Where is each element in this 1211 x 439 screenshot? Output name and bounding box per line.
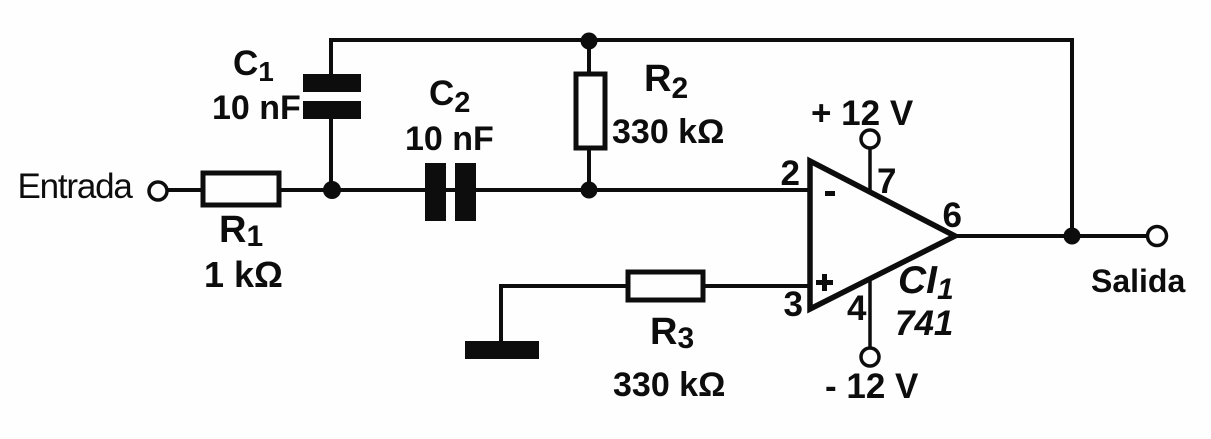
svg-text:741: 741: [895, 304, 953, 343]
wire: top feedback horizontal: [331, 38, 1072, 42]
svg-text:7: 7: [877, 162, 896, 201]
wire: output lead: [953, 234, 1146, 238]
node: junction dot output: [1064, 228, 1081, 245]
ground: [465, 341, 539, 359]
terminal: Salida output circle: [1148, 227, 1167, 246]
wire: ground vertical lead: [499, 284, 503, 343]
svg-text:Salida: Salida: [1091, 263, 1185, 299]
terminal: Entrada input circle: [149, 182, 167, 200]
op-amp U1 triangle: [810, 161, 955, 309]
resistor R1: [203, 173, 279, 205]
op-amp inverting input minus sign: [825, 191, 835, 196]
svg-text:- 12 V: - 12 V: [825, 367, 919, 406]
svg-text:6: 6: [943, 196, 962, 235]
op-amp non-inverting input plus sign: [816, 274, 833, 291]
terminal: +12V supply circle: [861, 130, 879, 148]
svg-text:330 kΩ: 330 kΩ: [612, 113, 724, 151]
terminal: -12V supply circle: [861, 348, 879, 366]
node: junction dot R2 bottom: [581, 182, 598, 199]
svg-text:2: 2: [781, 154, 800, 193]
svg-text:10 nF: 10 nF: [405, 120, 494, 158]
capacitor C2: [425, 163, 476, 221]
resistor R3: [628, 272, 703, 300]
svg-text:4: 4: [847, 289, 867, 328]
node: junction dot R2 top: [581, 33, 598, 50]
svg-text:1 kΩ: 1 kΩ: [204, 254, 283, 295]
wire: C1 bottom lead: [329, 118, 333, 192]
wire: pin3 non-inverting input lead: [501, 284, 810, 288]
wire: R2 bottom lead: [587, 148, 591, 190]
svg-text:10 nF: 10 nF: [212, 89, 301, 127]
svg-text:+ 12 V: + 12 V: [811, 94, 914, 133]
wire: pin4 -12V lead: [868, 278, 872, 348]
svg-text:330 kΩ: 330 kΩ: [613, 366, 725, 404]
wire: R2 top lead: [587, 40, 591, 74]
resistor R2: [576, 74, 605, 148]
wire: main horizontal input line: [165, 188, 810, 192]
svg-text:Entrada: Entrada: [18, 167, 134, 206]
svg-text:3: 3: [784, 285, 803, 324]
wire: C1 top lead: [329, 38, 333, 76]
wire: pin7 +12V lead: [868, 148, 872, 195]
node: junction dot at C1/R1: [323, 181, 341, 199]
wire: feedback vertical right (output to top): [1070, 38, 1074, 236]
capacitor C1: [303, 74, 361, 119]
